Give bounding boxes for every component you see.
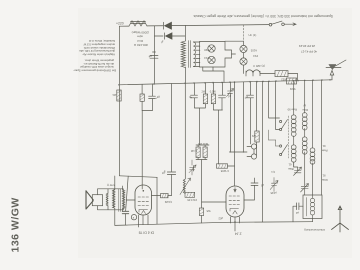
svg-text:C W05: C W05: [220, 169, 229, 173]
tube V1 output: [135, 185, 152, 215]
diode D1: [164, 22, 172, 29]
resistor R4: [211, 94, 215, 104]
output transformer T2 core: [119, 189, 121, 212]
wire screen rail: [156, 177, 158, 224]
svg-text:W33: W33: [289, 87, 295, 91]
transformer T1 primary winding: [181, 41, 185, 68]
capacitor C7: [251, 183, 258, 185]
wire frame to bus: [312, 219, 314, 222]
capacitor C2 electrolytic: [149, 96, 156, 98]
output transformer T2 secondary: [123, 190, 125, 209]
resistor Rk: [255, 131, 259, 142]
svg-text:Blau: Blau: [288, 167, 294, 171]
transformer T1 secondary winding: [193, 42, 195, 67]
trimmer C14: [270, 181, 278, 190]
coil L1 label: [287, 108, 297, 112]
switch linkage: [288, 116, 290, 158]
wire anode V1: [115, 176, 157, 226]
output transformer T2 primary: [113, 190, 115, 209]
svg-text:M10 W5: M10 W5: [197, 142, 208, 146]
tube V1 pins: [139, 215, 149, 227]
choke Dr1: [129, 21, 147, 26]
svg-text:µ5: µ5: [260, 184, 264, 188]
wire anode feed: [142, 111, 152, 190]
heater dropper coil: [246, 70, 275, 76]
wire right rail: [321, 80, 323, 195]
fuse Si: [131, 215, 136, 220]
svg-text:26 PP 28-23: 26 PP 28-23: [299, 44, 315, 48]
jack TA lower: [251, 154, 256, 159]
capacitor C13: [122, 211, 128, 213]
transformer T1 core: [189, 41, 191, 68]
earth label: [304, 228, 325, 232]
junction dots on bus: [153, 82, 155, 84]
wire long vertical: [262, 81, 264, 222]
main bus: [119, 80, 332, 85]
wire top bus: [119, 25, 269, 27]
svg-text:µ4: µ4: [295, 211, 299, 215]
speaker field winding: [106, 193, 108, 206]
svg-text:(±) 220 V: (±) 220 V: [253, 64, 265, 68]
svg-text:gegebenen Werte dess.: gegebenen Werte dess.: [84, 58, 114, 62]
svg-text:2 J4: 2 J4: [235, 232, 242, 236]
trimmer C6: [227, 89, 234, 97]
svg-text:81: 81: [322, 174, 325, 178]
coil L2: [304, 80, 306, 137]
wire R3 R4 join: [194, 83, 222, 164]
svg-text:P13: P13: [253, 54, 258, 58]
tube V1 electrodes: [138, 197, 149, 214]
choke Dr1 value labels (printed upside down): [132, 30, 149, 47]
svg-text:Antennenerdung: Antennenerdung: [304, 228, 325, 232]
svg-text:µ4: µ4: [148, 55, 152, 59]
svg-text:4µ: 4µ: [188, 96, 192, 100]
resistor R7 anode: [217, 164, 228, 168]
svg-text:Un (1): Un (1): [249, 33, 257, 37]
svg-text:61: 61: [322, 144, 325, 148]
wire lamp pair link: [225, 41, 244, 73]
note voltages (printed upside down): [299, 44, 317, 54]
label 01M: [190, 149, 197, 153]
wire left vertical rail: [118, 26, 120, 176]
note measurement (printed upside down): [193, 14, 333, 18]
output transformer T2 label: [107, 183, 115, 187]
resistor R1 on left rail: [117, 90, 121, 101]
coil L5: [312, 80, 314, 195]
resistor R10: [185, 192, 195, 197]
capacitor C12: [297, 203, 299, 210]
bottom bus: [115, 222, 313, 226]
capacitor C3 coupling: [167, 172, 175, 174]
resistor R13: [140, 94, 144, 101]
tube V2: [226, 186, 244, 217]
trimmer C11: [294, 167, 302, 176]
svg-text:W3: W3: [251, 134, 256, 138]
svg-text:Dl d Dl 78: Dl d Dl 78: [139, 231, 154, 235]
tube V1 type label: [139, 231, 154, 235]
resistor R6: [203, 147, 207, 158]
capacitor C1 label: [148, 55, 152, 59]
coil L3: [293, 162, 295, 167]
resistor R12 on bus: [287, 78, 297, 84]
lamp labels: [204, 48, 209, 60]
lamp La4: [240, 58, 247, 65]
resistor R3: [203, 94, 207, 104]
resistor R11: [199, 208, 203, 216]
lamp La1: [208, 45, 215, 52]
capacitor C1 4uF electrolytic: [150, 52, 158, 58]
svg-text:0,1M: 0,1M: [190, 149, 197, 153]
svg-text:40 PP 41-27: 40 PP 41-27: [301, 50, 317, 54]
wire speaker loop: [98, 189, 124, 210]
capacitor C5: [219, 95, 226, 98]
jack TA upper: [251, 144, 256, 149]
svg-text:P28: P28: [204, 48, 209, 52]
earth symbol bottom right: [332, 206, 349, 232]
speaker: [92, 195, 102, 206]
svg-text:µF25: µF25: [270, 191, 277, 195]
svg-text:µ01: µ01: [112, 93, 117, 97]
note 220V tap (printed upside down): [253, 64, 265, 68]
svg-text:Ü den: Ü den: [107, 183, 115, 187]
svg-text:Spannungen mit Instrument 333: Spannungen mit Instrument 333 Ω/V, 300 V…: [193, 14, 333, 18]
wire rectifier branch: [154, 26, 185, 84]
svg-text:µ02: µ02: [218, 217, 223, 221]
frame aerial box: [303, 195, 322, 219]
resistor R2 grid: [161, 194, 169, 198]
diode D2: [165, 33, 173, 39]
lamp La3 La4 labels: [250, 49, 258, 59]
trimmer C9: [189, 165, 196, 173]
node +220: [116, 22, 124, 26]
wire band switch feed: [269, 81, 280, 129]
svg-text:Rote: Rote: [321, 178, 327, 182]
tube V1 grid wire: [127, 199, 136, 201]
svg-text:belastbar, Werte in Ω: belastbar, Werte in Ω: [89, 39, 115, 43]
wire anode rail V2: [234, 82, 236, 186]
tube V2 electrodes: [229, 188, 240, 215]
coil L4: [304, 152, 306, 195]
lamp La3: [240, 45, 247, 52]
tube V2 pins: [231, 217, 240, 231]
coil L1: [293, 81, 295, 145]
svg-text:Rote: Rote: [321, 149, 327, 153]
svg-text:0,1: 0,1: [271, 170, 275, 174]
tube V2 type label: [235, 232, 242, 236]
svg-text:W5: W5: [206, 209, 210, 213]
mains switch S1: [269, 23, 272, 26]
lamp La2: [208, 56, 215, 63]
coil labels right: [321, 144, 327, 153]
band switch S2b: [280, 145, 282, 147]
svg-text:1W 0,05: 1W 0,05: [187, 198, 197, 202]
capacitor C10 on bottom bus: [218, 217, 223, 221]
svg-text:0,1M2: 0,1M2: [164, 200, 172, 204]
wire lamp box feed: [203, 67, 224, 82]
coil L3 label: [288, 163, 294, 172]
wire AF link: [230, 82, 247, 152]
resistor R5: [196, 147, 200, 158]
wire grid-cap branch: [152, 84, 194, 196]
svg-text:Rote 90: Rote 90: [287, 108, 297, 112]
band switch S2a: [280, 120, 282, 122]
capacitor C4: [191, 95, 198, 98]
dial lamp housing box: [200, 42, 232, 68]
wire heater to bus: [288, 74, 298, 81]
svg-text:+220: +220: [116, 22, 124, 26]
svg-text:A103: A103: [250, 49, 257, 53]
svg-text:61: 61: [288, 163, 291, 167]
svg-text:136 W/GW: 136 W/GW: [10, 197, 22, 252]
svg-text:P13: P13: [204, 56, 209, 60]
wire transformer primary feed: [184, 26, 186, 84]
svg-text:(2000 Wdgn): (2000 Wdgn): [132, 30, 149, 34]
svg-text:Rote: Rote: [302, 108, 308, 112]
switch linkage dashed: [243, 25, 245, 41]
volume pot P1: [183, 83, 185, 193]
svg-text:µF: µF: [244, 96, 248, 100]
frame aerial coil: [310, 198, 314, 215]
transformer T1 secondary taps: [193, 42, 200, 67]
antenna top right: [326, 60, 346, 68]
capacitor C8: [247, 95, 254, 98]
wire R5 R6 network: [196, 145, 226, 223]
note left column (printed upside down): [73, 39, 116, 73]
resistor R22 heater: [275, 71, 288, 77]
